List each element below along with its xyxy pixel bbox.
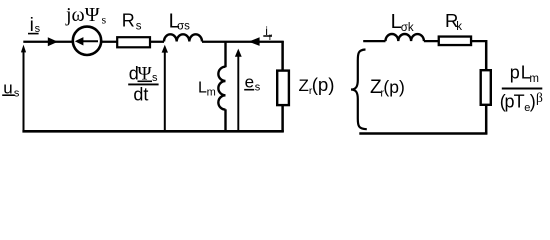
svg-text:m: m — [207, 86, 216, 98]
svg-text:s: s — [255, 82, 261, 94]
svg-text:(p): (p) — [312, 74, 335, 95]
svg-text:s: s — [102, 13, 107, 27]
svg-text:i: i — [30, 15, 34, 36]
svg-text:i: i — [265, 24, 268, 38]
svg-text:T: T — [514, 92, 525, 112]
svg-text:R: R — [122, 10, 135, 30]
svg-text:Ψ: Ψ — [138, 64, 152, 85]
svg-text:s: s — [14, 88, 20, 100]
svg-text:u: u — [3, 79, 12, 98]
svg-text:β: β — [536, 90, 543, 105]
svg-text:Z: Z — [299, 76, 309, 95]
svg-text:s: s — [35, 23, 41, 35]
svg-text:e: e — [245, 73, 254, 92]
svg-text:jωΨ: jωΨ — [65, 4, 100, 26]
svg-text:(p): (p) — [383, 77, 404, 97]
svg-text:s: s — [136, 21, 142, 33]
svg-text:k: k — [456, 21, 462, 33]
svg-text:dt: dt — [133, 84, 148, 104]
svg-text:m: m — [529, 73, 539, 85]
svg-text:σk: σk — [401, 22, 414, 34]
svg-text:σs: σs — [177, 21, 190, 33]
svg-text:s: s — [152, 72, 158, 84]
svg-text:p: p — [510, 63, 520, 83]
svg-text:): ) — [530, 92, 536, 112]
